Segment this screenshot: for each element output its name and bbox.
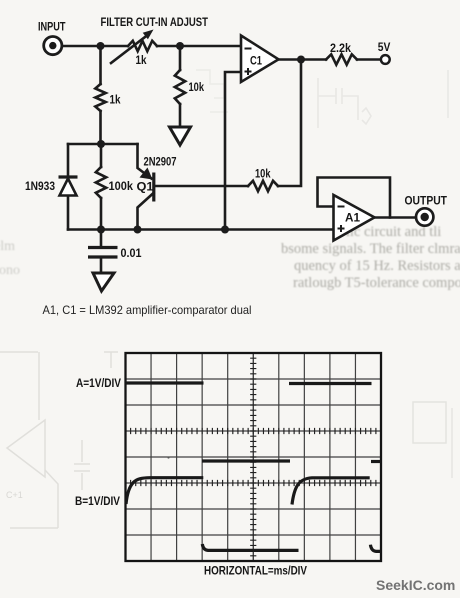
svg-text:hono: hono [0,263,20,278]
svg-text:10k: 10k [255,167,271,181]
svg-text:2.2k: 2.2k [330,41,351,55]
svg-text:100k: 100k [109,179,134,193]
svg-text:HORIZONTAL=ms/DIV: HORIZONTAL=ms/DIV [204,565,307,578]
svg-text:C1: C1 [250,54,262,68]
svg-text:SeekIC.com: SeekIC.com [376,577,455,593]
svg-text:10k: 10k [189,80,205,94]
svg-text:A=1V/DIV: A=1V/DIV [76,377,121,390]
svg-text:5V: 5V [378,40,391,54]
svg-text:1k: 1k [110,93,121,107]
svg-text:0.01: 0.01 [121,246,142,260]
svg-text:1N933: 1N933 [25,179,55,193]
svg-text:elm: elm [0,239,15,254]
svg-text:FILTER CUT-IN ADJUST: FILTER CUT-IN ADJUST [101,15,209,29]
svg-text:Q1: Q1 [137,180,154,194]
svg-text:2N2907: 2N2907 [144,155,177,169]
svg-text:C+1: C+1 [6,490,23,500]
svg-text:INPUT: INPUT [38,20,66,34]
svg-text:1k: 1k [136,53,147,67]
svg-text:bsome signals. The filter clmr: bsome signals. The filter clmra [281,241,460,257]
svg-text:B=1V/DIV: B=1V/DIV [75,495,120,508]
svg-text:quency of 15 Hz. Resistors and: quency of 15 Hz. Resistors and ca [294,258,460,274]
svg-text:A1: A1 [345,211,360,225]
svg-text:A1, C1 = LM392 amplifier-compa: A1, C1 = LM392 amplifier-comparator dual [43,303,252,317]
svg-text:OUTPUT: OUTPUT [405,194,448,208]
svg-text:ratlougb T5-tolerance compon: ratlougb T5-tolerance compon [293,275,460,291]
